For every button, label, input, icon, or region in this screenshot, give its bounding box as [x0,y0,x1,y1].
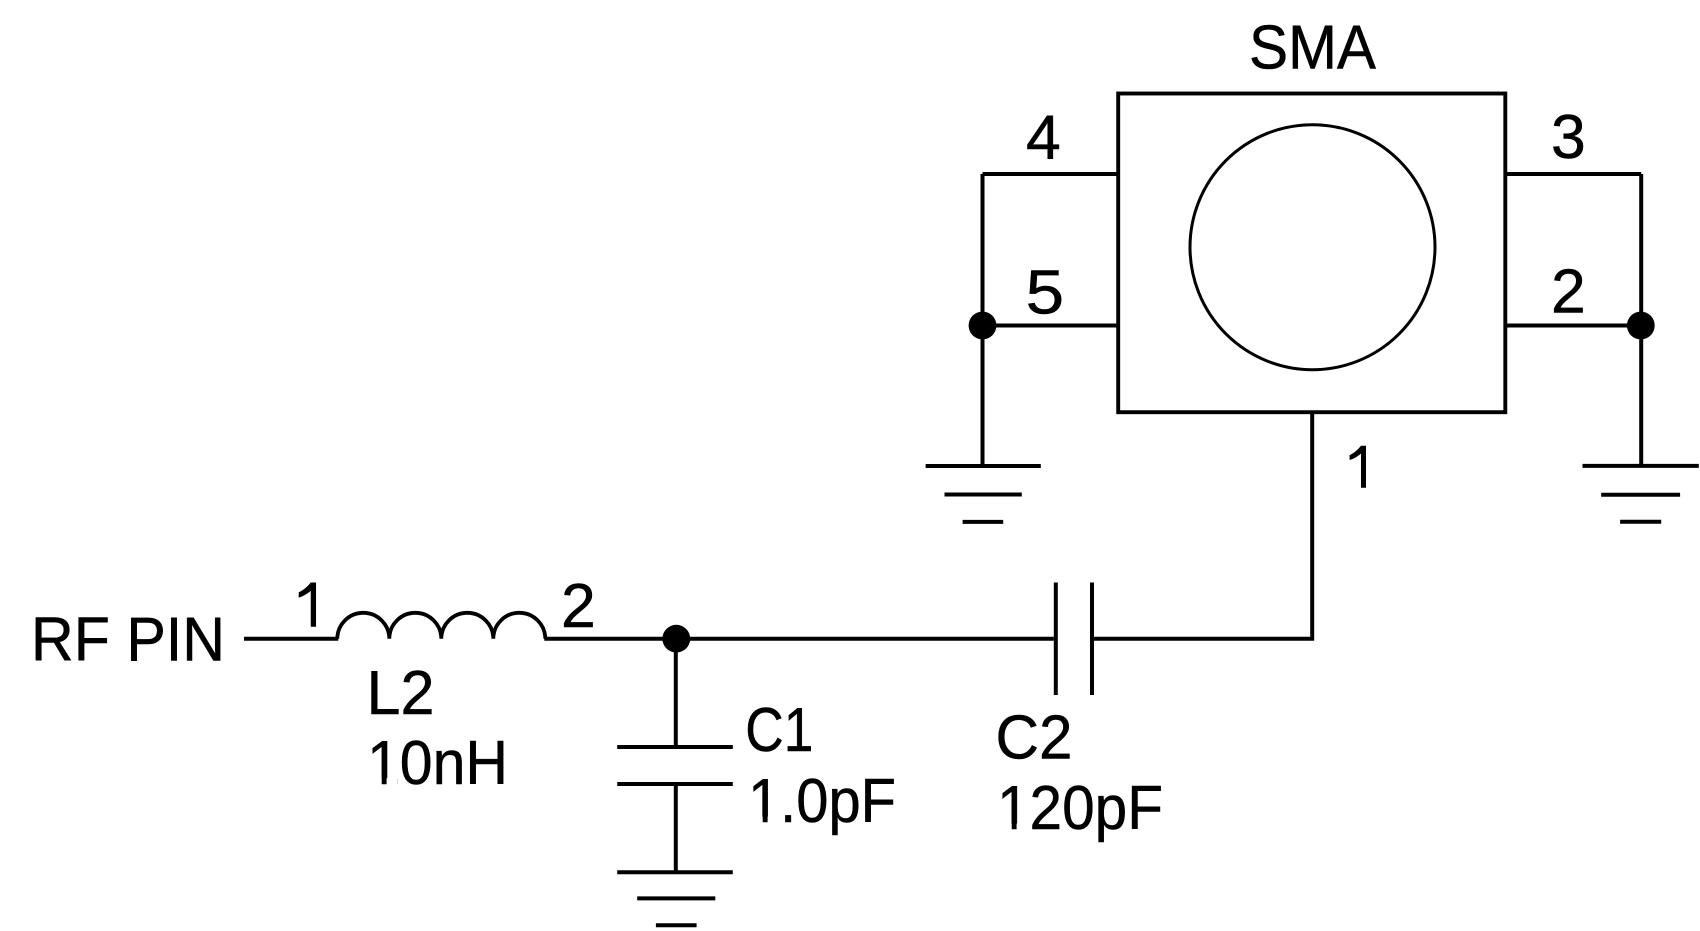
svg-text:C1: C1 [745,695,813,765]
svg-text:RF PIN: RF PIN [31,605,225,675]
svg-text:C2: C2 [996,703,1073,773]
svg-text:2: 2 [561,571,596,641]
svg-text:120pF: 120pF [997,773,1163,843]
svg-text:1.0pF: 1.0pF [748,766,896,836]
svg-text:SMA: SMA [1249,13,1376,83]
svg-text:10nH: 10nH [367,728,508,798]
svg-text:3: 3 [1551,102,1586,172]
svg-text:L2: L2 [367,658,435,728]
svg-text:4: 4 [1026,103,1061,173]
svg-text:2: 2 [1551,257,1586,327]
svg-text:5: 5 [1026,258,1065,328]
